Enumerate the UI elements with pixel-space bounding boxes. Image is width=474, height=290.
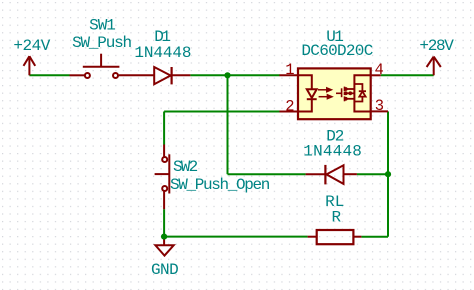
- svg-text:3: 3: [375, 97, 384, 115]
- op-amp U1 box: [298, 68, 371, 119]
- wire: [228, 173, 306, 175]
- wire: [164, 236, 308, 238]
- diode D1: [154, 67, 190, 84]
- wire: [357, 173, 388, 175]
- node junction D1-U1: [224, 72, 230, 78]
- wire: [163, 209, 165, 236]
- wire: [227, 75, 229, 174]
- U1 internal LED arrows: [318, 88, 332, 99]
- svg-text:2: 2: [285, 97, 294, 115]
- switch SW2: [155, 145, 170, 210]
- diode D2: [306, 165, 357, 185]
- U1 internal LED: [299, 75, 317, 111]
- wire: [190, 74, 279, 76]
- U1 internal body diode: [354, 84, 366, 102]
- svg-text:R: R: [331, 209, 341, 227]
- ground: [155, 240, 173, 256]
- wire: [163, 112, 165, 145]
- node junction GND: [161, 234, 167, 240]
- svg-text:1N4448: 1N4448: [134, 44, 191, 62]
- power +28V: [427, 57, 441, 76]
- svg-text:+28V: +28V: [419, 37, 454, 55]
- svg-text:1N4448: 1N4448: [303, 143, 362, 161]
- resistor RL: [308, 230, 362, 244]
- wire: [164, 111, 280, 113]
- U1 MOSFET contact dots: [344, 87, 352, 101]
- svg-text:SW1: SW1: [89, 17, 115, 35]
- svg-text:SW_Push_Open: SW_Push_Open: [170, 176, 270, 194]
- svg-text:SW_Push: SW_Push: [72, 34, 131, 52]
- switch SW1: [70, 54, 155, 78]
- wire: [361, 236, 388, 238]
- pin 2: [279, 111, 298, 113]
- wire: [381, 74, 434, 76]
- pin 4: [371, 74, 381, 76]
- svg-text:DC60D20C: DC60D20C: [301, 42, 372, 60]
- svg-text:+24V: +24V: [13, 37, 50, 55]
- svg-text:1: 1: [285, 61, 294, 79]
- svg-text:4: 4: [375, 61, 384, 79]
- svg-text:GND: GND: [151, 261, 178, 279]
- node junction D2-R: [385, 171, 391, 177]
- svg-text:SW2: SW2: [173, 158, 198, 176]
- wire: [387, 111, 389, 236]
- wire: [29, 74, 69, 76]
- pin 3: [371, 110, 388, 112]
- pin 1: [279, 74, 298, 76]
- U1 internal MOSFET: [336, 75, 371, 111]
- power +24V: [24, 56, 36, 75]
